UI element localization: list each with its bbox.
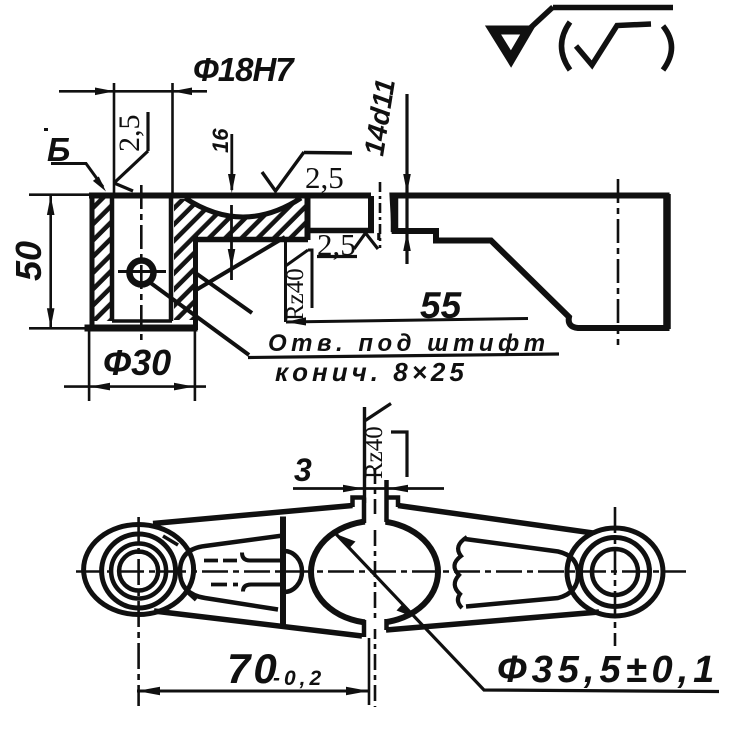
dimension 55: arrow and line and text <box>286 317 306 325</box>
slit collar left <box>353 498 365 508</box>
roughness 2,5 on top face near saddle <box>262 152 352 191</box>
svg-text:Отв. под штифт: Отв. под штифт <box>268 330 550 357</box>
arm bottom-left edge <box>154 611 362 636</box>
dimension Ф18Н7: line, arrows, extension lines, text <box>59 83 207 197</box>
slit opening mask bottom <box>365 619 385 629</box>
slit right wall top <box>384 480 389 522</box>
saddle arc (central bore seen in section) <box>185 198 301 217</box>
svg-text:2,5: 2,5 <box>305 160 344 195</box>
slit right wall bottom <box>384 619 389 630</box>
slit collar right <box>387 498 399 508</box>
top face line of hub and arm <box>89 193 371 199</box>
svg-text:конич. 8×25: конич. 8×25 <box>275 357 468 387</box>
hub left wall outer edge <box>90 193 95 330</box>
svg-text:2,5: 2,5 <box>113 115 146 153</box>
slit left wall bottom <box>362 620 367 637</box>
arm bottom-right edge <box>386 612 599 630</box>
left eye circle middle <box>111 544 166 599</box>
svg-text:Ф30: Ф30 <box>103 342 171 383</box>
right boss outer contour <box>567 528 663 616</box>
left eye circle outer <box>102 534 176 608</box>
right fork arm right edge (thick) <box>663 194 671 329</box>
hatch: hub left wall <box>94 197 110 321</box>
roughness Rz40 at slit <box>363 407 366 503</box>
svg-text:16: 16 <box>208 128 233 153</box>
svg-text:Rz40: Rz40 <box>361 426 388 479</box>
bore bottom line <box>112 319 172 323</box>
rotated roughness 2,5 on bore extension line <box>114 112 148 191</box>
slit opening mask top <box>365 514 385 525</box>
left eye vertical center line <box>137 517 140 706</box>
svg-text:3: 3 <box>294 452 312 488</box>
left boss outer contour <box>84 525 194 615</box>
dimension 70-0,2: line, arrows, extensions, text <box>137 690 369 693</box>
fillet stub top left <box>163 536 178 545</box>
slit left wall top <box>362 498 367 524</box>
pocket slot lower line with hook <box>243 585 283 592</box>
right eye circle bore <box>592 549 638 595</box>
slit center line (section) <box>379 182 382 248</box>
general roughness symbol v(v) top right <box>493 7 673 70</box>
transverse rib edge <box>280 517 286 628</box>
left pocket contour <box>180 536 283 610</box>
left eye circle bore <box>119 552 158 591</box>
hidden dash row lower <box>211 583 238 587</box>
shelf line under web <box>193 237 308 243</box>
scan speck <box>44 128 48 131</box>
svg-text:Ф35,5±0,1: Ф35,5±0,1 <box>497 649 719 691</box>
svg-text:-0,2: -0,2 <box>273 667 325 690</box>
fillet stub bottom left <box>185 590 196 600</box>
right eye vertical center line <box>614 507 617 646</box>
slot far-wall rectangle bottom <box>305 228 374 234</box>
arm top-left edge <box>153 506 353 524</box>
conical pin hole circle <box>118 261 166 285</box>
hatch: hub right wall + arm web band under saddle <box>174 199 307 320</box>
hub left wall inner (bore left line) <box>110 197 115 321</box>
central vertical center line <box>374 468 377 707</box>
note shelf line <box>248 354 559 358</box>
right pocket contour with end cap <box>465 539 578 607</box>
web slant second short edge <box>197 274 252 313</box>
central bore circle <box>311 521 438 623</box>
right boss center line <box>617 179 620 345</box>
pocket slot end cap <box>284 551 302 592</box>
roughness Rz40 on shelf surface with bracket <box>284 242 287 322</box>
right fork arm outline (side view) <box>393 196 667 329</box>
slot far-wall rectangle right edge <box>368 196 374 231</box>
svg-text:55: 55 <box>420 285 463 326</box>
hidden dash row upper <box>204 559 238 563</box>
dimension 3: line, arrows, text <box>293 487 444 490</box>
dimension 50: line, arrows, extension lines, rotated text <box>29 195 91 329</box>
svg-text:70: 70 <box>227 645 280 692</box>
leader line from pin hole to note text <box>148 281 249 355</box>
svg-text:Ф18Н7: Ф18Н7 <box>193 51 295 88</box>
right eye circle middle <box>581 538 650 607</box>
slot far-wall rectangle left edge <box>305 197 311 240</box>
diameter leader Ф35,5±0,1 <box>336 534 719 692</box>
dimension Ф30: extension lines, line, arrows, text <box>64 331 206 401</box>
pocket slot upper line with hook <box>242 553 283 561</box>
web slant visible edge <box>196 237 285 290</box>
hub vertical center line <box>140 185 143 341</box>
cast boundary wavy line <box>454 537 467 608</box>
svg-text:Rz40: Rz40 <box>282 268 309 321</box>
arm top-right edge <box>398 506 593 534</box>
svg-text:50: 50 <box>8 241 49 281</box>
bore right line <box>169 197 174 321</box>
hub bottom thick bar <box>85 325 198 332</box>
horizontal center line <box>76 570 686 573</box>
right fork arm left edge (thick) <box>391 194 399 232</box>
hub right wall outer edge <box>193 236 198 330</box>
